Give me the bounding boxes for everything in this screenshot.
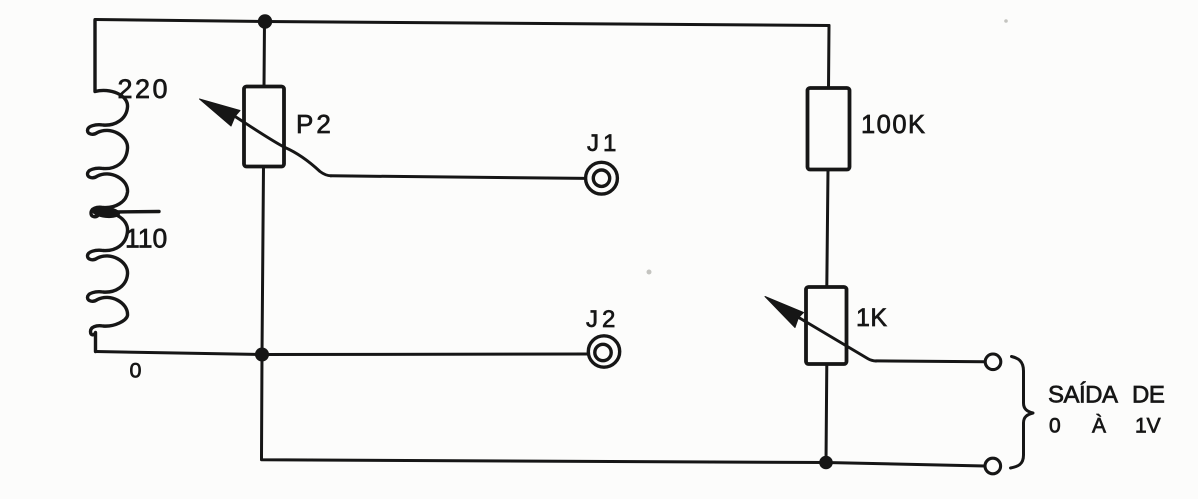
wire tap stub 110 — [113, 210, 159, 214]
svg-text:J2: J2 — [586, 306, 619, 333]
wire 1K wiper to output terminal top — [876, 359, 985, 363]
potentiometer 1K body — [806, 287, 847, 364]
terminal output bottom — [985, 458, 1001, 474]
resistor 100K body — [808, 88, 850, 170]
node junction bottom — [819, 456, 833, 470]
wire P2 bottom lead — [262, 167, 264, 457]
svg-text:110: 110 — [125, 224, 167, 254]
node junction top — [258, 14, 272, 28]
P2 wiper arrow — [200, 99, 332, 176]
wire 100K to 1K — [827, 170, 828, 288]
terminal output top — [985, 354, 1001, 370]
svg-text:J1: J1 — [587, 130, 620, 157]
potentiometer P2 body — [244, 87, 284, 167]
wire right vertical top — [827, 26, 831, 89]
svg-text:P2: P2 — [296, 109, 334, 139]
svg-text:0: 0 — [130, 359, 142, 383]
wire transformer bottom to J2 — [96, 352, 589, 355]
transformer tap blob 110 — [91, 205, 120, 219]
wire P2 top lead — [263, 22, 267, 87]
wire bottom horizontal — [262, 457, 985, 467]
wire P2 wiper to J1 — [331, 176, 585, 179]
node junction transformer bottom — [255, 348, 269, 362]
1K wiper arrow — [765, 297, 876, 362]
transformer T1 primary winding — [88, 20, 128, 352]
brace output — [1011, 357, 1034, 469]
specks (scan noise) — [647, 19, 1008, 274]
wire top horizontal — [95, 20, 829, 26]
jack J1 — [586, 162, 618, 194]
wire 1K bottom lead — [825, 364, 829, 463]
svg-text:1K: 1K — [856, 304, 888, 332]
jack J2 — [588, 336, 619, 367]
svg-text:220: 220 — [118, 74, 171, 104]
svg-text:SAÍDADE: SAÍDADE — [1048, 382, 1164, 409]
svg-text:100K: 100K — [861, 111, 927, 139]
